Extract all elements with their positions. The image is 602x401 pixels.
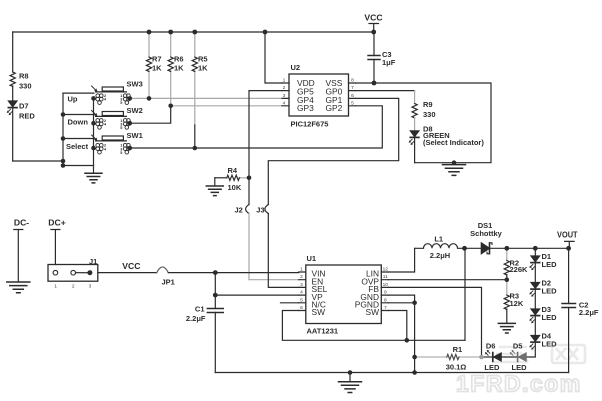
svg-text:3: 3	[89, 284, 92, 290]
svg-text:R1: R1	[453, 345, 463, 354]
node SW pins	[405, 338, 410, 343]
svg-text:11: 11	[383, 274, 388, 280]
capacitor C2	[568, 248, 570, 372]
ground (DC-)	[7, 282, 30, 293]
connector J1	[48, 265, 98, 282]
wire SW right drop	[388, 311, 407, 341]
resistor R8	[10, 72, 15, 86]
wire FB to R1 node	[388, 287, 481, 357]
wire SW node riser	[464, 248, 466, 340]
svg-text:R5: R5	[198, 54, 208, 63]
svg-text:VCC: VCC	[364, 13, 382, 23]
wire rail to ground	[63, 165, 94, 167]
node L1/DS1/SW	[462, 246, 467, 251]
node OVP/R2/R3	[505, 277, 510, 282]
power DC+ stub	[51, 230, 60, 265]
wire loop bottom to rail	[13, 160, 63, 162]
svg-text:12: 12	[383, 267, 389, 273]
power VCC symbol	[369, 24, 379, 33]
svg-text:RED: RED	[19, 112, 35, 121]
wire GND drop	[388, 295, 414, 372]
ground (bottom rail)	[349, 373, 351, 382]
ground (R3)	[498, 323, 515, 333]
svg-text:VOUT: VOUT	[557, 229, 578, 239]
svg-text:3: 3	[283, 93, 286, 99]
diode D8 (green LED)	[409, 131, 419, 163]
svg-text:LED: LED	[484, 363, 500, 372]
ground (switch common)	[85, 173, 102, 183]
svg-text:AAT1231: AAT1231	[307, 327, 339, 336]
svg-text:D6: D6	[486, 341, 496, 350]
svg-text:Down: Down	[68, 117, 89, 126]
resistor R4	[215, 175, 249, 186]
svg-text:2: 2	[300, 274, 303, 280]
svg-text:2: 2	[72, 284, 75, 290]
node R4/J2	[247, 176, 252, 181]
diode D3 LED	[529, 309, 539, 323]
svg-text:1: 1	[300, 267, 303, 273]
diode D6 LED	[485, 350, 501, 362]
svg-text:7: 7	[351, 85, 354, 91]
svg-text:U2: U2	[291, 63, 301, 72]
svg-text:L1: L1	[434, 235, 443, 244]
svg-text:4: 4	[300, 290, 303, 296]
ground (R4)	[206, 186, 223, 196]
svg-text:Select: Select	[66, 142, 89, 151]
svg-text:8: 8	[351, 78, 354, 84]
svg-text:10K: 10K	[228, 183, 242, 192]
wire SW left to bottom	[282, 311, 465, 341]
wire output top rail	[465, 247, 569, 249]
svg-text:R7: R7	[152, 54, 162, 63]
wire N/C stub	[281, 302, 299, 304]
wire Select rung	[63, 138, 94, 140]
wire GP5 to J2	[249, 91, 282, 205]
IC U1 AAT1231	[306, 265, 382, 324]
diode D1 LED	[529, 256, 539, 270]
wire J2 to EN (gray)	[249, 214, 299, 280]
svg-text:PIC12F675: PIC12F675	[291, 119, 329, 128]
svg-text:226K: 226K	[510, 265, 529, 274]
watermark	[456, 345, 585, 397]
svg-text:DC-: DC-	[14, 218, 29, 228]
node FB/R1 junction	[479, 355, 484, 360]
svg-text:J1: J1	[89, 257, 97, 266]
wire switch pins rail	[93, 98, 95, 173]
svg-text:LED: LED	[542, 340, 558, 349]
svg-text:4: 4	[283, 100, 286, 106]
svg-text:12K: 12K	[510, 299, 524, 308]
power DC- stub	[14, 230, 23, 282]
diode D4 LED	[529, 336, 539, 350]
switch SW2	[92, 111, 131, 131]
inductor L1	[415, 244, 465, 249]
wire PGND	[388, 302, 414, 304]
wire JP1 to VIN	[168, 272, 298, 274]
node SW3 out	[128, 96, 133, 101]
svg-text:2: 2	[283, 85, 286, 91]
wire J3 to SEL	[268, 214, 299, 288]
svg-text:LED: LED	[542, 287, 558, 296]
node C3/VSS	[372, 81, 377, 86]
wire LED chain	[527, 248, 535, 357]
node R7 top	[147, 30, 152, 35]
svg-text:5: 5	[120, 126, 122, 130]
wire SW1 output to GP2	[130, 106, 382, 148]
svg-text:330: 330	[423, 110, 436, 119]
resistor R7	[148, 32, 150, 98]
diode DS1 schottky	[481, 243, 492, 254]
wire VSS to loop	[356, 83, 492, 163]
svg-text:30.1Ω: 30.1Ω	[446, 362, 467, 371]
svg-text:DC+: DC+	[48, 218, 65, 228]
svg-text:Up: Up	[68, 95, 78, 104]
U1 pin stubs	[299, 272, 306, 311]
node VIN/C1	[213, 270, 218, 275]
wire LIN to L1	[388, 248, 414, 272]
svg-text:GP2: GP2	[326, 103, 343, 113]
svg-text:5: 5	[120, 101, 122, 105]
resistor R2	[506, 248, 508, 260]
wire R6 junction to GP3 (gray)	[171, 105, 282, 107]
capacitor C1	[214, 295, 216, 372]
svg-text:8: 8	[384, 297, 387, 303]
svg-text:GP3: GP3	[297, 103, 314, 113]
svg-text:2.2μF: 2.2μF	[186, 314, 206, 323]
node R7/GP4	[147, 96, 152, 101]
svg-text:R8: R8	[19, 71, 29, 80]
svg-text:LED: LED	[542, 313, 558, 322]
svg-text:LED: LED	[542, 260, 558, 269]
svg-text:1μF: 1μF	[382, 58, 396, 67]
svg-text:(Select Indicator): (Select Indicator)	[423, 138, 484, 147]
svg-text:1: 1	[54, 284, 57, 290]
IC U2 PIC12F675	[289, 74, 349, 116]
svg-text:7: 7	[384, 305, 387, 311]
svg-text:6: 6	[300, 305, 303, 311]
svg-text:9: 9	[384, 290, 387, 296]
wire Up rung	[63, 92, 94, 94]
svg-text:Schottky: Schottky	[470, 229, 503, 238]
wire SW3 to GP4 (gray)	[130, 97, 282, 99]
wire GP0 to R9	[356, 90, 415, 92]
svg-text:330: 330	[19, 82, 32, 91]
svg-text:1K: 1K	[152, 64, 162, 73]
jumper J2	[246, 205, 249, 214]
wire R1 leads (gray)	[415, 356, 447, 358]
svg-text:D7: D7	[19, 101, 29, 110]
svg-text:SW2: SW2	[127, 106, 143, 115]
wire GP1 to J3	[268, 98, 398, 204]
svg-text:6: 6	[351, 93, 354, 99]
svg-text:VCC: VCC	[122, 261, 140, 271]
jumper J3	[265, 205, 268, 214]
node Down rung	[61, 112, 66, 117]
svg-text:SW: SW	[312, 307, 326, 317]
resistor R1	[447, 354, 459, 359]
svg-text:C1: C1	[195, 304, 205, 313]
wire left loop vertical	[12, 32, 14, 161]
resistor R5	[194, 32, 196, 125]
resistor R9	[412, 104, 417, 118]
svg-text:U1: U1	[307, 254, 317, 263]
svg-text:R6: R6	[174, 54, 184, 63]
svg-text:3: 3	[300, 282, 303, 288]
svg-text:5: 5	[300, 297, 303, 303]
svg-text:SW3: SW3	[127, 79, 143, 88]
wire OVP to R2/R3 node	[388, 279, 507, 281]
wire J1 to JP1	[98, 272, 157, 274]
svg-text:R4: R4	[228, 166, 238, 175]
diode D2 LED	[529, 283, 539, 297]
diode D7 (red LED)	[7, 101, 17, 115]
wire FB node to D6	[482, 356, 493, 358]
svg-text:1K: 1K	[174, 64, 184, 73]
svg-text:1K: 1K	[198, 64, 208, 73]
svg-text:2.2μH: 2.2μH	[430, 251, 450, 260]
svg-text:R9: R9	[423, 100, 433, 109]
svg-text:SW: SW	[366, 307, 380, 317]
resistor R3	[506, 280, 508, 295]
wire top rail	[13, 31, 374, 33]
wire SW2 output	[130, 106, 171, 123]
capacitor C3	[373, 32, 375, 83]
svg-text:2.2μF: 2.2μF	[579, 308, 599, 317]
svg-text:SW1: SW1	[127, 131, 143, 140]
svg-text:1: 1	[283, 78, 286, 84]
power VOUT symbol	[565, 241, 575, 248]
wire Down rung	[63, 114, 94, 116]
diode D5 LED (faded)	[510, 350, 526, 362]
svg-text:JP1: JP1	[162, 277, 175, 286]
switch SW1	[92, 135, 131, 155]
switch SW3	[92, 86, 131, 105]
node rail ground tap	[348, 370, 353, 375]
wire bottom rail	[215, 372, 568, 374]
svg-text:LED: LED	[512, 363, 528, 372]
ground (D8 loop)	[453, 163, 455, 165]
svg-text:5: 5	[351, 100, 354, 106]
svg-text:D5: D5	[513, 341, 523, 350]
wire VIN node down to C1	[214, 273, 216, 296]
resistor R6	[170, 32, 172, 106]
svg-text:J2: J2	[235, 206, 243, 215]
svg-text:J3: J3	[256, 206, 264, 215]
wire VDD to top rail	[265, 32, 282, 83]
svg-text:1FRD.com: 1FRD.com	[456, 371, 582, 397]
jumper JP1	[157, 267, 169, 273]
wire C1 node to VP	[215, 294, 298, 296]
node J1 pin3	[87, 270, 92, 275]
svg-text:5: 5	[120, 151, 122, 155]
node SW3 pin1	[91, 96, 96, 101]
wire D6 to D5	[501, 356, 517, 358]
svg-text:10: 10	[383, 282, 389, 288]
U2 pin stubs	[282, 83, 356, 106]
node rail for button labels	[62, 93, 64, 165]
